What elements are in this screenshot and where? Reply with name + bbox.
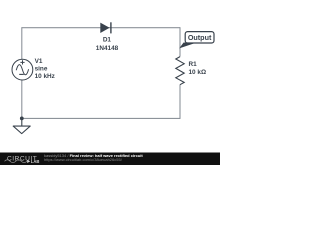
- wire right vertical lower (resistor bottom to bottom wire): [179, 85, 181, 119]
- ground stub wire: [21, 118, 23, 125]
- wire bottom from junction to resistor leg: [22, 117, 180, 119]
- footer logo LAB arrow: [27, 160, 30, 163]
- svg-text:sine: sine: [35, 66, 48, 73]
- V1 plus sign: [20, 60, 24, 64]
- voltage source V1 circle: [12, 59, 33, 80]
- svg-text:LAB: LAB: [31, 159, 40, 164]
- svg-text:10 kHz: 10 kHz: [35, 73, 55, 80]
- V1 sine wave: [16, 65, 28, 75]
- ground symbol triangle: [13, 126, 30, 134]
- wire right vertical upper (corner to resistor top): [179, 27, 181, 56]
- diode D1 cathode bar: [110, 22, 112, 33]
- wire left vertical lower (V1 bottom to ground junction): [21, 80, 23, 119]
- footer logo waveform: [5, 160, 27, 163]
- wire left vertical upper (V1 top to corner): [21, 27, 23, 59]
- svg-text:R1: R1: [189, 61, 198, 68]
- diode D1 triangle (anode): [100, 23, 109, 33]
- svg-text:https://www.circuitlab.com/c/3: https://www.circuitlab.com/c/38ueuah26c5…: [44, 157, 123, 162]
- svg-text:1N4148: 1N4148: [96, 45, 119, 52]
- wire top from V1 to diode and to output node: [22, 27, 180, 29]
- output flag tail: [179, 43, 194, 49]
- svg-text:Output: Output: [188, 33, 212, 42]
- svg-text:D1: D1: [103, 37, 112, 44]
- node junction dot: [20, 117, 24, 121]
- footer bar: [0, 153, 220, 166]
- output flag box: [185, 32, 214, 43]
- V1 minus sign: [19, 73, 24, 75]
- svg-text:V1: V1: [35, 58, 43, 65]
- resistor R1 zigzag: [176, 57, 184, 85]
- svg-text:10 kΩ: 10 kΩ: [189, 69, 207, 76]
